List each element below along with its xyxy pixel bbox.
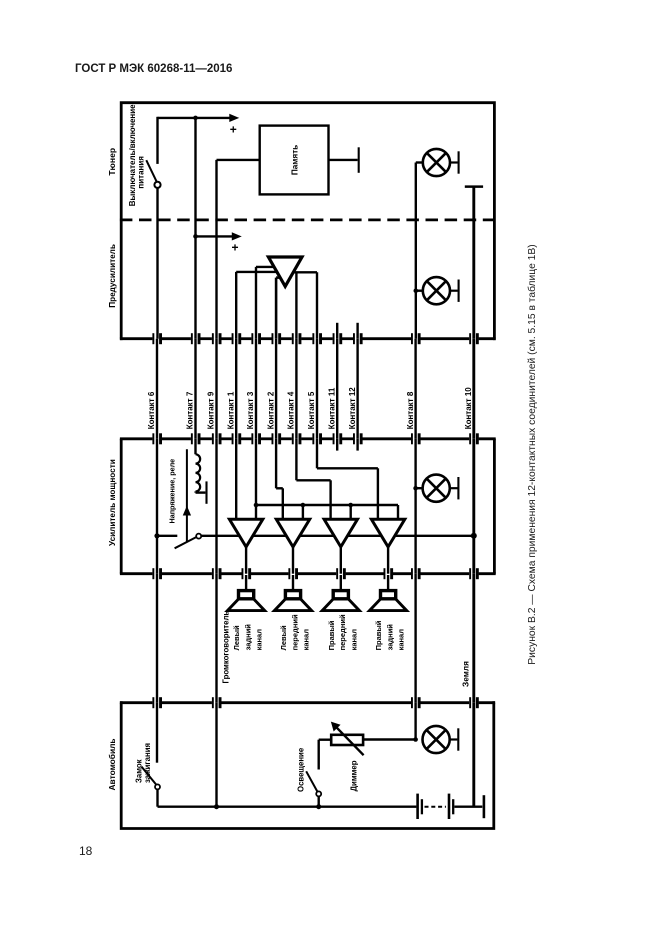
svg-text:Диммер: Диммер bbox=[349, 760, 358, 791]
svg-text:канал: канал bbox=[397, 629, 406, 651]
svg-text:Контакт 3: Контакт 3 bbox=[246, 391, 255, 429]
svg-text:18: 18 bbox=[79, 844, 93, 858]
svg-text:передний: передний bbox=[338, 614, 347, 650]
svg-text:передний: передний bbox=[290, 614, 299, 650]
svg-text:Контакт 9: Контакт 9 bbox=[207, 391, 216, 429]
svg-text:Левый: Левый bbox=[232, 625, 241, 650]
svg-text:Левый: Левый bbox=[279, 625, 288, 650]
svg-text:Автомобиль: Автомобиль bbox=[107, 738, 117, 790]
svg-text:Память: Память bbox=[290, 145, 299, 175]
svg-text:Контакт 1: Контакт 1 bbox=[226, 391, 235, 429]
svg-text:Контакт 7: Контакт 7 bbox=[186, 391, 195, 429]
svg-text:ГОСТ Р МЭК 60268-11—2016: ГОСТ Р МЭК 60268-11—2016 bbox=[75, 63, 232, 75]
svg-text:Тюнер: Тюнер bbox=[107, 148, 117, 176]
svg-text:канал: канал bbox=[302, 629, 311, 651]
svg-text:Контакт 6: Контакт 6 bbox=[147, 391, 156, 429]
svg-text:питания: питания bbox=[136, 156, 145, 189]
svg-text:Выключатель/включение: Выключатель/включение bbox=[128, 104, 137, 206]
svg-text:Контакт 10: Контакт 10 bbox=[464, 387, 473, 430]
svg-text:Контакт 11: Контакт 11 bbox=[327, 387, 336, 429]
svg-text:канал: канал bbox=[255, 629, 264, 651]
svg-text:Усилитель мощности: Усилитель мощности bbox=[108, 459, 117, 546]
svg-text:Громкоговоритель: Громкоговоритель bbox=[221, 611, 230, 684]
svg-text:Контакт 4: Контакт 4 bbox=[287, 391, 296, 429]
svg-text:Предусилитель: Предусилитель bbox=[108, 244, 117, 308]
svg-text:+: + bbox=[230, 123, 237, 137]
svg-text:Напряжение, реле: Напряжение, реле bbox=[167, 459, 176, 524]
svg-text:Освещение: Освещение bbox=[296, 747, 305, 792]
svg-text:Контакт 8: Контакт 8 bbox=[406, 391, 415, 429]
svg-text:задний: задний bbox=[243, 624, 252, 651]
svg-text:Рисунок В.2 — Схема применения: Рисунок В.2 — Схема применения 12-контак… bbox=[526, 244, 538, 664]
svg-text:Правый: Правый bbox=[374, 620, 383, 650]
svg-text:+: + bbox=[231, 241, 238, 255]
svg-text:Правый: Правый bbox=[327, 620, 336, 650]
svg-text:задний: задний bbox=[385, 624, 394, 651]
svg-text:Контакт 2: Контакт 2 bbox=[266, 391, 275, 429]
svg-text:канал: канал bbox=[349, 629, 358, 651]
svg-text:Контакт 12: Контакт 12 bbox=[348, 387, 357, 430]
svg-text:зажигания: зажигания bbox=[143, 743, 152, 783]
svg-text:Контакт 5: Контакт 5 bbox=[307, 391, 316, 429]
svg-text:Земля: Земля bbox=[460, 661, 470, 687]
